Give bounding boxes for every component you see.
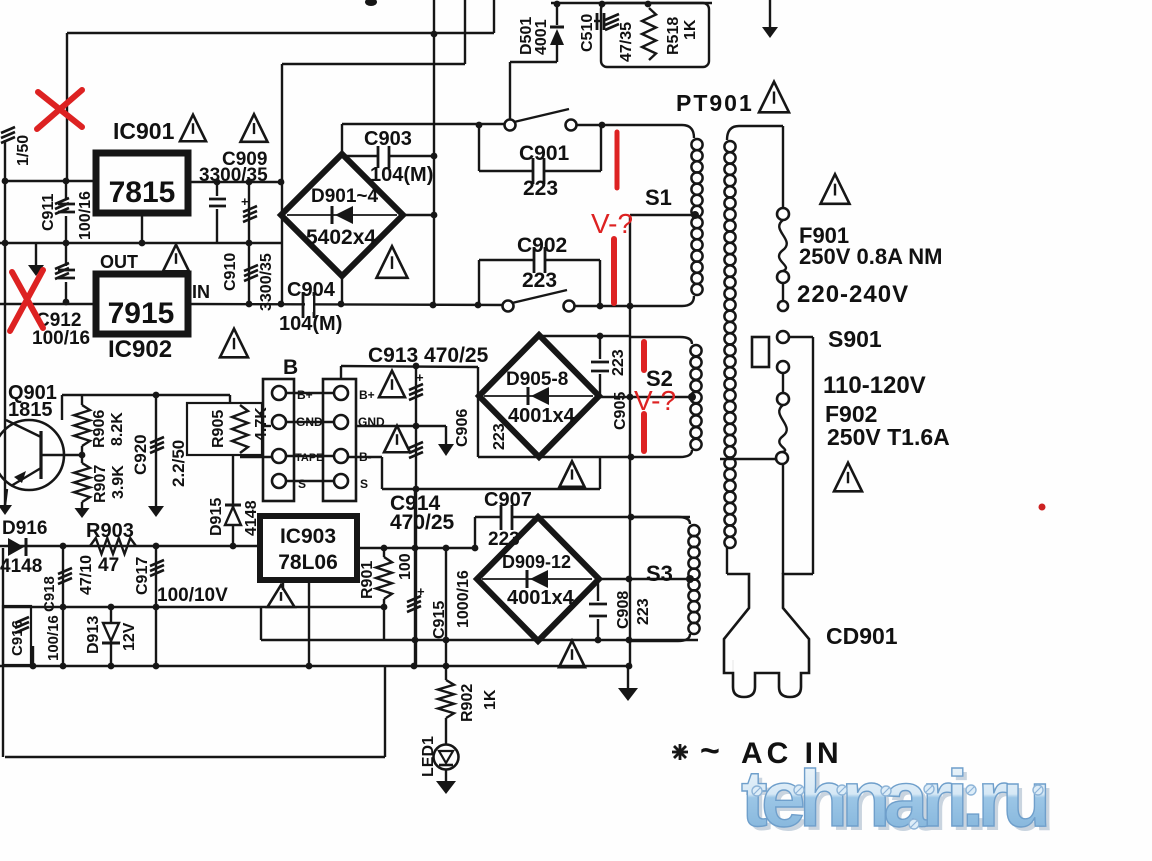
svg-text:223: 223	[523, 177, 558, 200]
svg-text:S3: S3	[646, 561, 673, 586]
wire from output rail up to C907	[474, 517, 476, 548]
capacitor C901 bypass loop left	[478, 125, 480, 171]
wire from loop down to D915	[232, 455, 234, 546]
red dot right side	[1039, 504, 1046, 511]
wire bridge top corner to AC rail y124	[341, 124, 343, 156]
svg-text:D901~4: D901~4	[311, 186, 379, 207]
wire GND row left stub	[262, 425, 271, 427]
warning triangle right of PT901	[759, 82, 789, 113]
zener D913 12V	[110, 607, 112, 623]
node dot y517 x631	[628, 514, 635, 521]
connector 2 pin B+	[334, 386, 348, 400]
wire y304 left of 7915	[0, 303, 96, 305]
svg-text:223: 223	[610, 349, 627, 376]
capacitor C904 in series on y304	[302, 292, 305, 318]
svg-text:8.2K: 8.2K	[109, 412, 126, 446]
connector 2 pin S	[334, 474, 348, 488]
svg-text:1K: 1K	[682, 19, 699, 40]
capacitor C920 2.2/50	[155, 395, 157, 506]
switch contact S2-a	[503, 301, 514, 312]
ground arrow under Q901	[0, 505, 12, 515]
capacitor C918 vertical x63	[62, 546, 64, 666]
ground symbol top right	[769, 0, 771, 27]
left rail lower segment	[2, 548, 4, 757]
wire divider rail to R905 loop	[156, 394, 230, 396]
wire y304 from 7915 IN to switch S2-a	[188, 304, 508, 305]
node dot C905 top	[597, 333, 604, 340]
svg-text:PT901: PT901	[676, 90, 754, 116]
svg-text:100/10V: 100/10V	[157, 585, 228, 606]
capacitor C907 in series	[475, 516, 501, 518]
wire box right side	[599, 457, 601, 489]
node after switch 2	[597, 303, 604, 310]
contact to S901	[777, 331, 789, 343]
ground arrow left	[28, 265, 44, 276]
svg-text:R906: R906	[91, 410, 108, 448]
svg-text:D905-8: D905-8	[506, 369, 568, 390]
switch contact S1-a	[505, 120, 516, 131]
svg-text:C916: C916	[9, 620, 26, 656]
polarity hatch C909	[243, 206, 257, 212]
plug prong separators	[732, 660, 734, 673]
svg-text:5402x4: 5402x4	[306, 226, 376, 249]
svg-text:D913: D913	[85, 616, 102, 654]
node dot R901 bottom	[381, 604, 388, 611]
far left vertical rail	[4, 140, 6, 505]
svg-text:220-240V: 220-240V	[797, 281, 909, 308]
wire LED to ground	[445, 769, 447, 781]
node dot tap	[626, 576, 633, 583]
capacitor C909 vertical	[216, 182, 218, 196]
wire vertical x465 from top edge	[464, 0, 466, 64]
polarity hatch C914	[409, 442, 423, 448]
red line near S2 bottom	[641, 414, 647, 451]
warning triangle 2 top row	[241, 114, 268, 142]
wire ground rail y243	[0, 242, 281, 244]
svg-text:C904: C904	[287, 279, 336, 301]
svg-text:C907: C907	[484, 489, 532, 511]
node dot x630 y666	[626, 663, 633, 670]
bridge internal line	[482, 578, 592, 580]
svg-text:4001x4: 4001x4	[507, 587, 575, 609]
wire bridge top to S2 top rail	[539, 335, 631, 337]
svg-text:V-?: V-?	[591, 208, 633, 239]
svg-text:~: ~	[700, 732, 720, 770]
node blob at top edge	[365, 0, 377, 6]
svg-text:S901: S901	[828, 326, 882, 352]
svg-text:IN: IN	[192, 282, 210, 302]
svg-text:IC902: IC902	[108, 336, 172, 363]
capacitor C912 on x66	[65, 243, 67, 266]
wire S row between connectors	[287, 480, 333, 482]
wire from C913 rail to bridge left corner	[477, 367, 479, 457]
svg-text:LED1: LED1	[420, 736, 437, 777]
resistor R902 1K	[445, 640, 447, 666]
warning triangle under F902 labels	[834, 463, 862, 492]
wire vertical x282 down to bridge D901 left corner	[281, 64, 283, 304]
capacitor C903 on y156	[342, 155, 378, 157]
watermark screw details	[752, 786, 762, 796]
transformer secondary S2 winding	[631, 337, 692, 344]
node dot IC903 leg	[306, 663, 313, 670]
red X mark 1	[37, 90, 82, 129]
node dots y546	[60, 543, 67, 550]
warning triangle near C914	[384, 426, 410, 453]
node dot on tap	[627, 394, 634, 401]
svg-text:R902: R902	[459, 684, 476, 722]
svg-text:100/16: 100/16	[77, 191, 94, 240]
node dot x416 y427	[413, 423, 420, 430]
svg-text:R905: R905	[210, 410, 227, 448]
polarity hatch C917	[150, 560, 164, 566]
capacitor C902 bypass loop left	[478, 260, 480, 305]
svg-text:C911: C911	[40, 194, 57, 231]
right conductor from S901 into plug	[812, 337, 814, 574]
svg-text:B+: B+	[297, 388, 313, 402]
svg-text:+: +	[416, 370, 424, 385]
bridge internal diode	[335, 206, 353, 224]
resistor R907 3.9K	[81, 446, 83, 463]
primary tap wire to F902	[720, 458, 776, 460]
wire y607 from C916 box to R901 bottom	[2, 606, 384, 608]
polarity hatch C510	[605, 14, 619, 20]
svg-text:7815: 7815	[109, 176, 176, 209]
contact 110-120 b	[777, 393, 789, 405]
wire bridge bottom rail y457	[478, 456, 631, 458]
hatch top-left cap	[1, 127, 15, 133]
S1 tap wire	[630, 214, 694, 216]
wire top rail y395 of divider	[62, 394, 156, 396]
wire bridge bottom corner stub	[341, 276, 343, 304]
diode D501 4001	[550, 29, 564, 45]
capacitor C911 on x66	[65, 181, 67, 200]
node dot y457	[628, 454, 635, 461]
wire top horizontal rail y33	[67, 32, 494, 34]
ground arrow main	[618, 688, 638, 701]
svg-text:223: 223	[635, 598, 652, 625]
Q901 emitter ground stub	[5, 489, 7, 505]
wire B+ row between connectors	[287, 392, 333, 394]
svg-text:2.2/50: 2.2/50	[169, 440, 188, 487]
svg-text:1/50: 1/50	[15, 135, 32, 166]
connector 1 pin TAPE	[272, 449, 286, 463]
node dots on y182	[214, 179, 221, 186]
warning triangle in box under bridge	[560, 461, 585, 487]
connector 2 pin B-	[334, 449, 348, 463]
svg-text:4001x4: 4001x4	[508, 405, 576, 427]
wire switch2 to S1 winding bottom	[574, 305, 604, 307]
contact 110-120 a	[777, 361, 789, 373]
polarity hatch C911	[55, 198, 69, 204]
wire step down x261	[260, 607, 262, 640]
svg-text:IC901: IC901	[113, 118, 175, 144]
resistor R906 8.2K	[81, 395, 83, 405]
svg-text:104(M): 104(M)	[370, 164, 433, 186]
node dot	[63, 299, 70, 306]
wire switch to transformer S1 top	[576, 124, 604, 126]
regulator IC903 78L06 box	[260, 516, 357, 580]
svg-text:OUT: OUT	[100, 252, 138, 272]
wire vertical from rail down to IC901 input	[66, 33, 68, 181]
wire AC rail y124 to switch	[342, 123, 510, 125]
svg-text:IC903: IC903	[280, 525, 336, 548]
svg-text:S1: S1	[645, 185, 672, 210]
svg-text:C903: C903	[364, 128, 412, 150]
switch contact S2-b	[564, 301, 575, 312]
polarity hatch next to ground	[55, 263, 69, 269]
ground arrow under LED1	[436, 781, 456, 794]
connector box 1	[263, 379, 294, 501]
svg-text:250V 0.8A NM: 250V 0.8A NM	[799, 244, 942, 269]
svg-text:S: S	[298, 477, 306, 491]
wire bridge right corner to x434	[403, 214, 434, 216]
wire bridge right corner tap	[598, 396, 694, 398]
bridge internal diode	[530, 570, 548, 588]
wire S901 top	[789, 336, 813, 338]
svg-text:4148: 4148	[0, 556, 42, 577]
ground arrow under R907	[75, 508, 90, 518]
capacitor C915 vertical x415	[414, 489, 416, 666]
node base junction	[79, 452, 86, 459]
capacitor C910 on x249	[248, 182, 250, 304]
primary lower left outline to plug	[726, 548, 728, 574]
rail B corner down to ground	[627, 666, 629, 688]
svg-text:3.9K: 3.9K	[110, 465, 127, 499]
diode D915 4148	[225, 507, 241, 525]
switch contact S1-b	[566, 120, 577, 131]
ground arrow small	[438, 444, 454, 456]
Q901 base wire to divider	[41, 454, 82, 456]
capacitor C913/C914 vertical rail x416	[415, 366, 417, 666]
svg-text:7915: 7915	[108, 297, 175, 330]
connector 1 pin B+	[272, 386, 286, 400]
fuse F901 body	[779, 220, 787, 271]
diode D916	[8, 538, 24, 556]
svg-text:B+: B+	[359, 388, 375, 402]
wire vertical x434 from top edge down to AC switch rail	[433, 0, 435, 305]
svg-text:R518: R518	[665, 17, 682, 55]
bridge internal line	[287, 214, 397, 216]
svg-text:C913 470/25: C913 470/25	[368, 344, 489, 367]
wire C916 to rail	[32, 646, 34, 666]
node dots rail B	[30, 663, 37, 670]
node dots on y304	[246, 301, 253, 308]
ground arrow under C920	[148, 506, 164, 517]
red X mark 2	[10, 270, 43, 331]
svg-text:D915: D915	[208, 498, 225, 536]
svg-text:100/16: 100/16	[32, 328, 90, 349]
hatch inside C916	[15, 617, 29, 623]
bridge internal line	[484, 395, 593, 397]
node dots y243	[63, 240, 70, 247]
Q901 collector	[6, 420, 41, 437]
node dot far left	[2, 240, 9, 247]
wire IC901 ground leg	[141, 213, 143, 243]
svg-text:D909-12: D909-12	[502, 552, 571, 572]
bridge rectifier D905-8 diamond	[479, 335, 599, 457]
op-amp regulator IC901 7815 box	[96, 153, 188, 213]
rail A y640	[261, 639, 698, 641]
node on y3 rail	[554, 1, 561, 8]
polarity hatch C915	[407, 596, 421, 602]
node dot x434 y156	[431, 153, 438, 160]
polarity hatch C920	[150, 437, 164, 443]
node junction on y33 rail	[431, 31, 438, 38]
svg-text:+: +	[417, 584, 425, 599]
warning triangle below C910	[220, 329, 248, 358]
wire bridge top to S3 rail y517	[539, 516, 690, 518]
wire input rail y546	[0, 545, 260, 547]
node dot C913 top	[413, 363, 420, 370]
svg-text:C910: C910	[222, 253, 239, 291]
resistor R903 47	[90, 538, 136, 554]
bridge rectifier D909-12 diamond	[477, 517, 599, 641]
polarity hatch C918	[58, 568, 72, 574]
capacitor C916 box	[3, 606, 31, 665]
node on y124	[476, 122, 483, 129]
capacitor C510	[594, 20, 602, 22]
svg-text:250V T1.6A: 250V T1.6A	[827, 424, 950, 450]
svg-text:100/16: 100/16	[45, 615, 62, 661]
svg-text:100: 100	[397, 553, 414, 580]
wire bridge right tap y579	[598, 578, 688, 580]
connector box 2	[323, 379, 356, 501]
switch arm 2	[512, 290, 567, 303]
node dots on y548	[381, 545, 388, 552]
svg-text:47/10: 47/10	[78, 555, 95, 595]
transformer secondary S1 winding	[604, 125, 694, 138]
transistor Q901 circle	[0, 420, 64, 490]
fuse F902 bottom contact	[776, 452, 788, 464]
wire x446 from output rail to rail A	[445, 548, 447, 640]
wire B- row to C914 bottom	[348, 456, 382, 458]
svg-text:B: B	[283, 356, 298, 379]
svg-text:1K: 1K	[482, 689, 499, 710]
wire TAPE row between connectors	[287, 455, 333, 457]
svg-text:470/25: 470/25	[390, 511, 455, 534]
bottom left return wire y757	[5, 756, 385, 758]
svg-text:110-120V: 110-120V	[823, 372, 926, 399]
switch arm	[514, 109, 569, 122]
node dots rail A	[412, 637, 419, 644]
warning triangle near IC901	[180, 115, 206, 142]
LED LED1	[434, 745, 459, 770]
wire loop around R905	[187, 403, 262, 455]
diode D501 vertical lead	[556, 4, 558, 25]
svg-text:D916: D916	[2, 518, 47, 539]
svg-text:V-?: V-?	[634, 385, 676, 416]
wire GND row between connectors	[287, 421, 333, 423]
svg-text:12V: 12V	[121, 622, 138, 651]
warning triangle right of bridge D901	[377, 246, 408, 278]
S2 tap blob	[688, 393, 696, 401]
wire vertical x494 to top edge	[493, 0, 495, 33]
node dot y489	[413, 486, 420, 493]
primary right conductor down to fuse F901	[782, 126, 784, 208]
red line near S1 top	[615, 132, 620, 188]
C902 loop top with cap	[479, 259, 534, 261]
connector 1 pin GND	[272, 415, 286, 429]
node dot top of C920	[153, 392, 160, 399]
node dots y181	[2, 178, 9, 185]
svg-text:47/35: 47/35	[618, 22, 635, 62]
svg-text:4.7K: 4.7K	[253, 407, 270, 441]
wire from D501 to switch S1-a	[510, 61, 557, 63]
asterisk symbol AC	[674, 746, 686, 758]
svg-text:C917: C917	[134, 557, 151, 595]
svg-text:C902: C902	[517, 234, 567, 257]
IC903 left leg with warning triangle	[282, 580, 284, 590]
resistor R901 100	[383, 548, 385, 557]
wire TAPE row left stub	[240, 456, 271, 458]
svg-text:C906: C906	[454, 409, 471, 447]
fuse F902 body	[779, 405, 787, 452]
wire horizontal y64	[282, 63, 465, 65]
wire stub from connector 2	[340, 366, 342, 379]
svg-text:1815: 1815	[8, 399, 53, 421]
wire box bottom y489	[414, 488, 600, 490]
left conductor from F902 into plug	[782, 464, 784, 574]
svg-text:CD901: CD901	[826, 623, 898, 649]
Q901 emitter with arrow	[11, 468, 41, 486]
svg-text:S: S	[360, 477, 368, 491]
red line near S2 top	[641, 342, 647, 370]
node dots y607	[60, 604, 67, 611]
warning triangle above 7915	[163, 245, 189, 272]
wire IC901 input y181 from left rail	[5, 180, 96, 182]
output rail y548 right of IC903	[357, 547, 476, 549]
Q901 base bar	[39, 431, 42, 479]
red line near S1 bottom	[611, 239, 617, 303]
svg-text:3300/35: 3300/35	[258, 253, 275, 311]
polarity hatch C913	[409, 384, 423, 390]
link 110-120	[782, 373, 784, 393]
wire link 220-240	[782, 283, 784, 300]
capacitor C917 vertical x156	[155, 546, 157, 666]
wire C913 top y366	[341, 366, 478, 367]
warning triangle on rail under D909	[559, 641, 585, 668]
connector 2 pin GND	[334, 415, 348, 429]
bottom rail B y666	[0, 665, 628, 667]
node dot x434 y215	[431, 212, 438, 219]
bridge internal diode	[531, 387, 549, 405]
fuse F901 top contact	[777, 208, 789, 220]
S3 tap blob	[686, 575, 694, 583]
svg-text:4001: 4001	[533, 19, 550, 55]
svg-text:C920: C920	[131, 434, 150, 475]
wire to LED	[445, 718, 447, 745]
svg-text:R907: R907	[92, 465, 109, 503]
svg-text:TAPE: TAPE	[295, 452, 324, 464]
C901 loop bottom with cap	[479, 170, 533, 172]
Q901 collector vertical	[61, 395, 63, 420]
switch S901 core symbol	[752, 337, 769, 367]
polarity hatch C910	[244, 265, 258, 271]
wire GND row to ground arrow	[355, 425, 446, 427]
svg-text:223: 223	[491, 423, 508, 450]
contact 220-240	[778, 301, 788, 311]
wire elbow to ground arrow	[35, 243, 37, 265]
resistor R518 1K	[642, 8, 656, 60]
warning triangle above F901	[821, 174, 850, 204]
wire top rail y3 to snubber box	[551, 2, 712, 4]
svg-text:C901: C901	[519, 142, 570, 165]
connector 1 pin S	[272, 474, 286, 488]
C902 loop right	[599, 260, 601, 306]
snubber box around C510 and R518	[601, 3, 709, 67]
svg-text:tehnari.ru: tehnari.ru	[741, 754, 1047, 843]
warning triangle near C913	[379, 371, 405, 398]
